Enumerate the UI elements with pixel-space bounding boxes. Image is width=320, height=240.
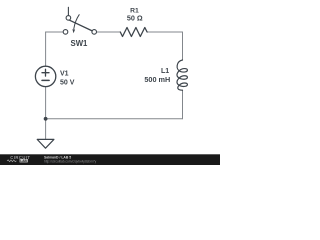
- wire bottom rail: [46, 118, 183, 120]
- switch SW1 arrowhead: [72, 29, 75, 33]
- switch SW1 blade: [70, 20, 93, 31]
- switch SW1 top terminal circle: [66, 16, 71, 21]
- switch SW1 left terminal circle: [63, 30, 68, 35]
- svg-text:http://circuitlab.com/c/qvbx4p: http://circuitlab.com/c/qvbx4p8sbm7y: [44, 159, 97, 163]
- wire top-left horizontal: [46, 31, 64, 33]
- watermark logo zigzag: [7, 160, 16, 162]
- svg-text:LAB: LAB: [20, 159, 27, 163]
- wire switch top stub: [67, 7, 69, 15]
- svg-text:500 mH: 500 mH: [144, 75, 170, 84]
- switch SW1 right terminal circle: [92, 30, 97, 35]
- wire switch to resistor: [97, 31, 121, 33]
- svg-text:SW1: SW1: [71, 39, 89, 48]
- wire right column lower: [182, 90, 184, 119]
- V1 minus sign: [42, 79, 49, 81]
- switch SW1 motion arc: [74, 15, 79, 29]
- ground symbol: [37, 139, 54, 148]
- junction node dot: [44, 117, 48, 121]
- watermark logo LAB badge: [20, 159, 28, 162]
- wire V1 bottom to junction: [45, 87, 47, 119]
- wire right column upper: [182, 32, 184, 60]
- watermark bar: [0, 154, 220, 165]
- wire top rail right of resistor: [147, 31, 182, 33]
- svg-text:50 V: 50 V: [60, 79, 75, 86]
- resistor R1 zigzag: [120, 28, 147, 37]
- voltage source V1 circle: [35, 66, 55, 86]
- wire junction to ground: [45, 119, 47, 139]
- wire left column vertical: [45, 32, 47, 66]
- V1 plus sign: [42, 69, 49, 76]
- svg-text:V1: V1: [60, 70, 69, 77]
- svg-text:50 Ω: 50 Ω: [127, 14, 143, 23]
- inductor L1 coil: [177, 60, 187, 90]
